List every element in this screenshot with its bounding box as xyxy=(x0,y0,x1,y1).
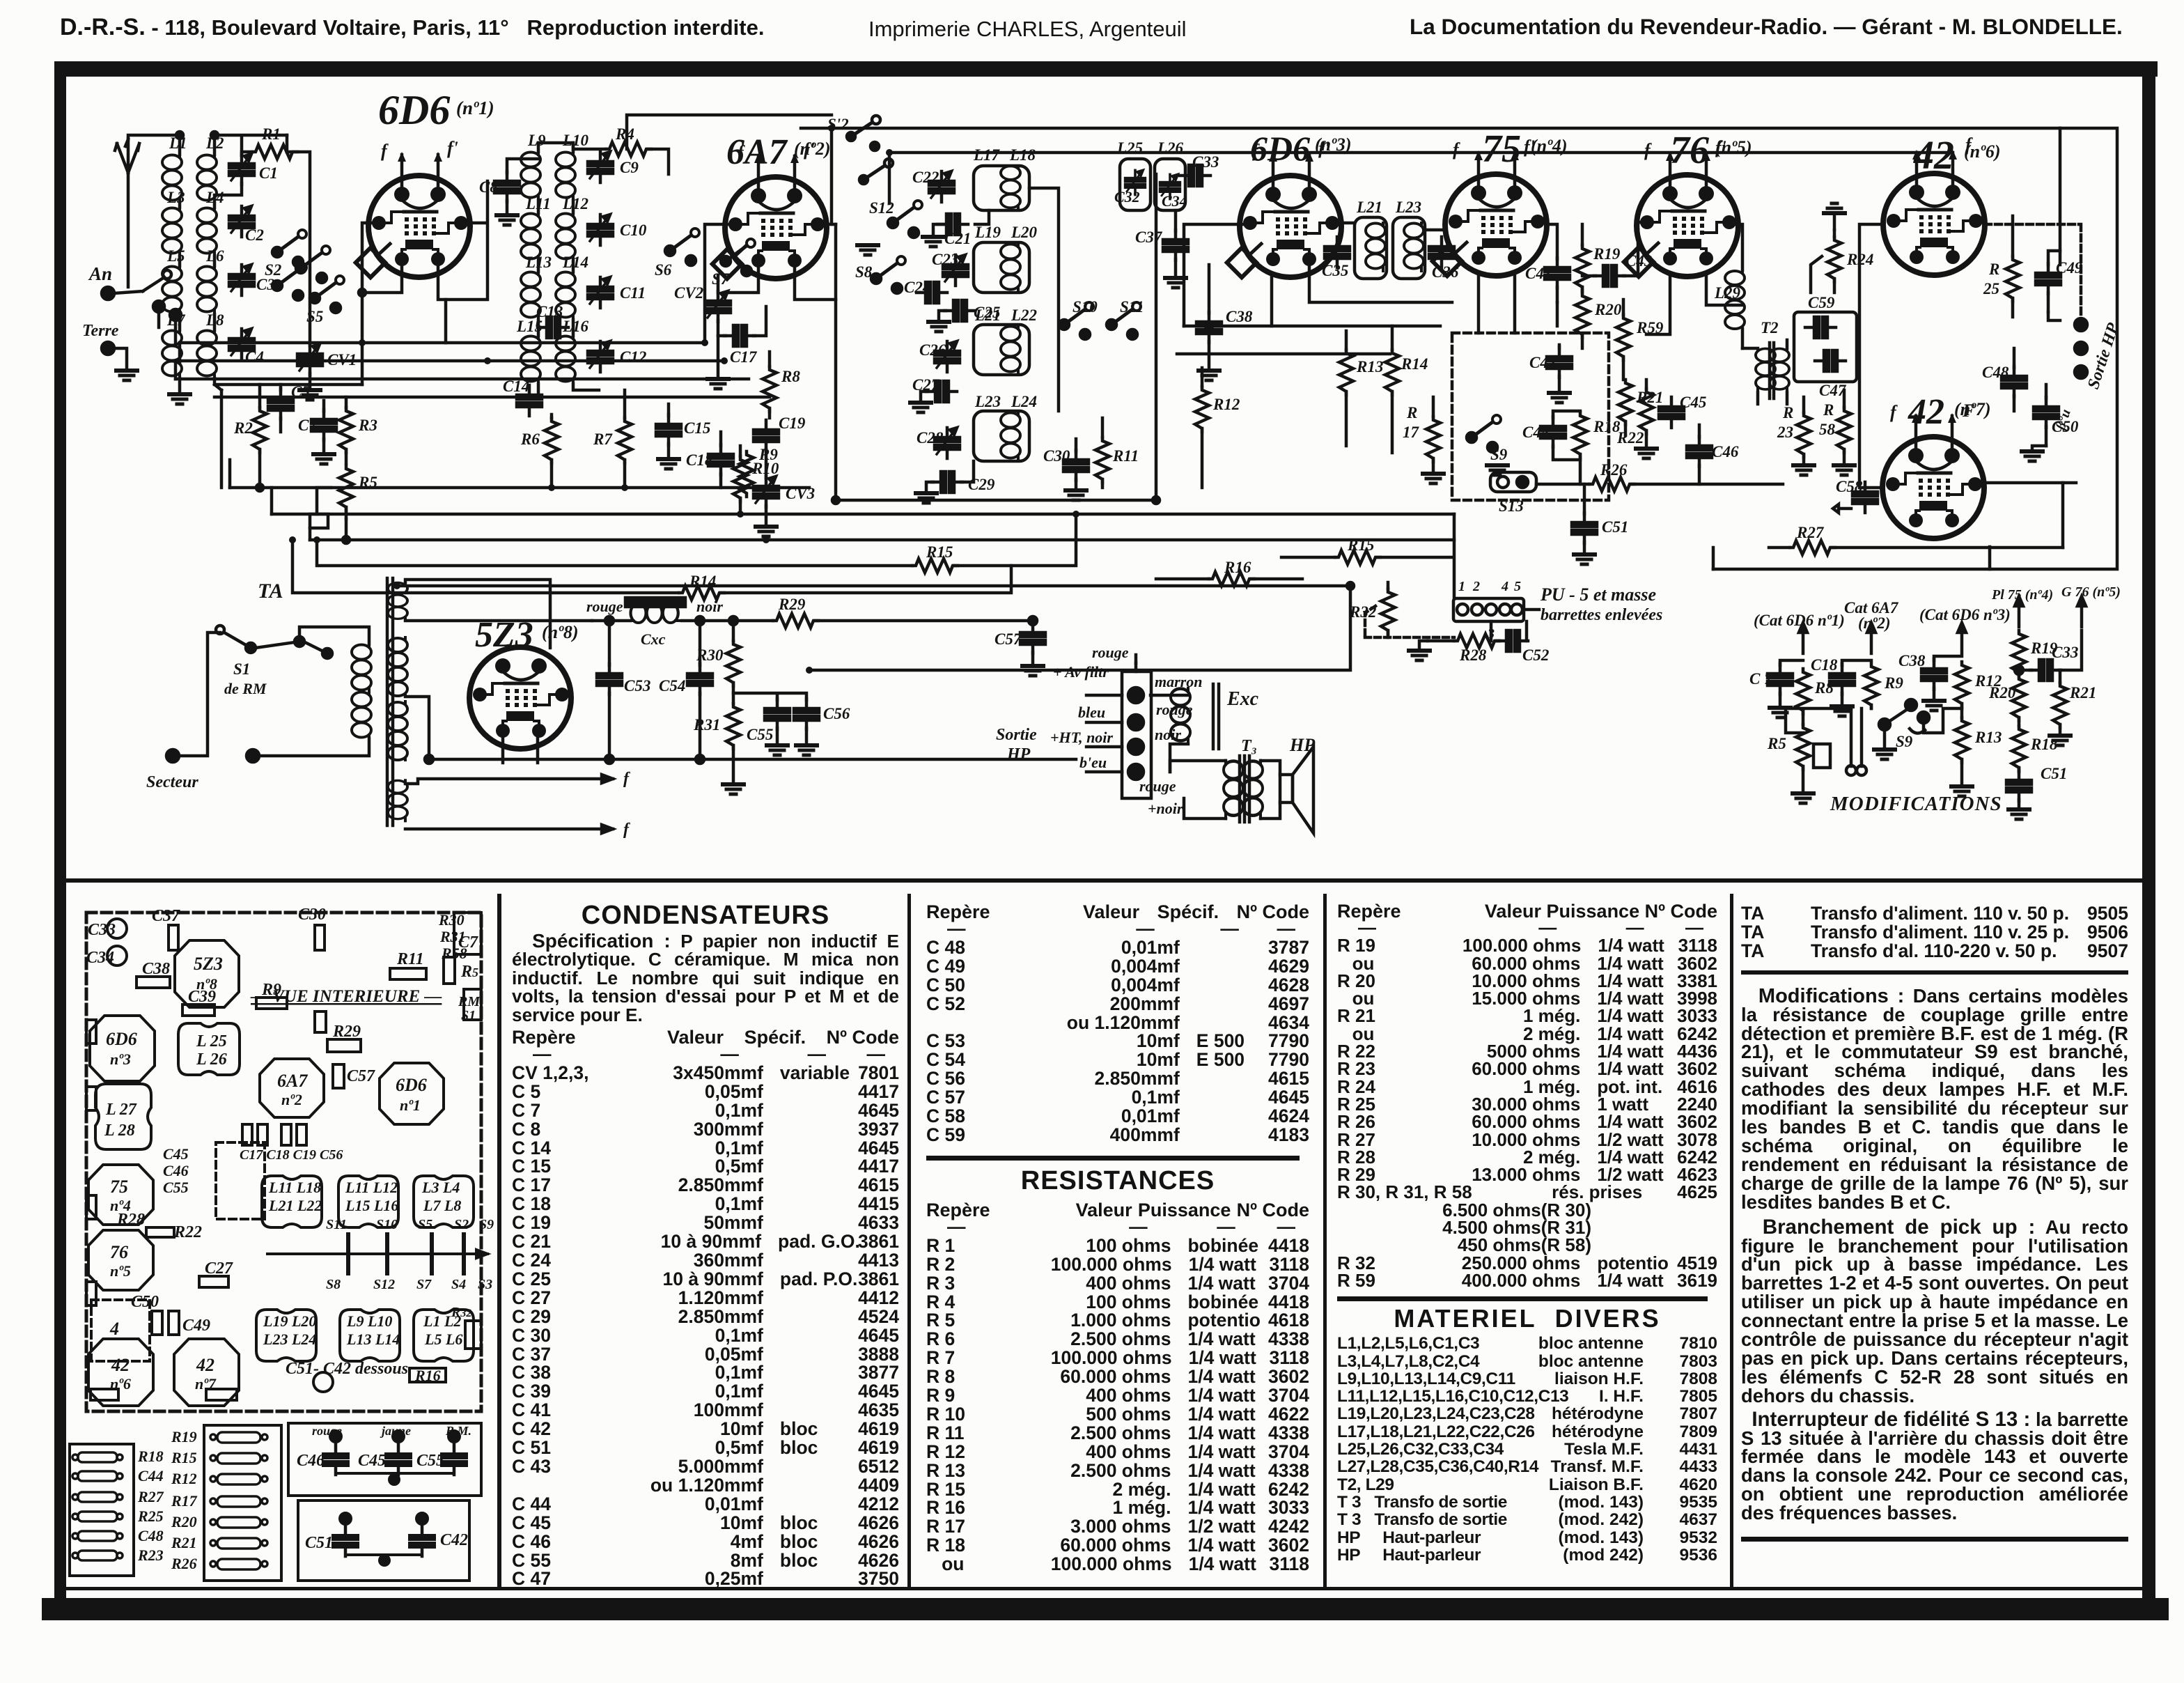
mod capacitor C51b xyxy=(2006,770,2031,801)
svg-text:C22: C22 xyxy=(912,169,939,186)
resistor R3 xyxy=(339,408,353,453)
capacitor C19 xyxy=(754,420,779,451)
mod resistor R5b xyxy=(1796,724,1810,770)
primary selector xyxy=(322,649,332,658)
capacitor C27 xyxy=(926,381,957,402)
ground R28 xyxy=(1409,651,1430,660)
svg-text:R2: R2 xyxy=(233,419,253,437)
svg-text:R21: R21 xyxy=(2069,684,2096,701)
resistor R1 xyxy=(252,145,297,159)
mod resistor R20b xyxy=(2012,676,2026,721)
capacitor C24 xyxy=(916,282,947,303)
variable capacitor CV1 xyxy=(297,344,322,375)
grid cap V3 xyxy=(1227,248,1256,277)
svg-text:CV3: CV3 xyxy=(786,485,815,502)
IF unit L26 xyxy=(1155,159,1185,210)
svg-text:S9: S9 xyxy=(1896,733,1913,750)
svg-text:rouge: rouge xyxy=(1156,701,1193,718)
ground C50 xyxy=(2022,451,2043,461)
svg-text:Pl 75 (nº4): Pl 75 (nº4) xyxy=(1991,587,2053,603)
resistor R19 xyxy=(1575,245,1589,290)
svg-text:L8: L8 xyxy=(205,311,224,329)
resistor R11a xyxy=(1095,437,1109,483)
fil leads f xyxy=(405,779,613,829)
antenna mast xyxy=(115,139,139,173)
svg-text:S12: S12 xyxy=(373,1277,395,1292)
capacitor circle C33 xyxy=(107,919,127,938)
tube socket 5Z3 n.8 xyxy=(175,940,239,1007)
capacitor C52 xyxy=(1497,630,1528,651)
svg-text:nº2: nº2 xyxy=(281,1091,302,1108)
switch S6 xyxy=(665,228,699,265)
capacitor C7 xyxy=(311,410,336,440)
svg-text:f: f xyxy=(623,821,630,839)
svg-text:L12: L12 xyxy=(562,195,588,212)
capacitor C58 xyxy=(1852,482,1878,513)
capacitor C41 xyxy=(1545,258,1570,288)
resistor box A xyxy=(70,1444,134,1576)
svg-text:L16: L16 xyxy=(562,318,589,335)
ground C42 xyxy=(1549,393,1570,403)
svg-text:L7: L7 xyxy=(166,311,186,329)
svg-text:C56: C56 xyxy=(823,705,850,722)
capacitor circle C34 xyxy=(107,946,127,965)
small rect C30 xyxy=(315,925,325,950)
svg-text:C18: C18 xyxy=(1811,656,1838,674)
mod ground S9b xyxy=(1874,750,1895,759)
svg-text:CV2: CV2 xyxy=(674,284,703,302)
resistor R30 xyxy=(726,641,740,686)
svg-text:L1: L1 xyxy=(169,134,187,152)
wire 6D6.3 left region xyxy=(1184,224,1250,326)
svg-text:R29: R29 xyxy=(332,1023,361,1041)
ground R58 xyxy=(1834,465,1855,475)
svg-text:L5: L5 xyxy=(166,247,185,265)
resistor R15b xyxy=(912,559,958,573)
resistor R27 xyxy=(1790,541,1835,554)
mod cathode 6A7 arrow xyxy=(1867,623,1875,653)
capacitor C5 xyxy=(268,389,293,419)
svg-text:75: 75 xyxy=(110,1177,128,1197)
svg-text:C51: C51 xyxy=(2041,765,2067,782)
resistor R4 xyxy=(606,142,651,156)
wire bankB vertical xyxy=(214,135,362,385)
svg-text:42: 42 xyxy=(196,1355,214,1375)
wire y468 xyxy=(1184,325,1440,328)
capacitor C37 xyxy=(1163,230,1188,261)
sortie terminal 3 xyxy=(2075,366,2087,378)
mod ground R13b xyxy=(1951,786,1972,796)
frame right bar xyxy=(2142,67,2155,1598)
output transformer T3 xyxy=(1224,761,1243,819)
svg-text:L20: L20 xyxy=(1011,224,1038,241)
svg-text:C55: C55 xyxy=(416,1452,444,1470)
header imprint left xyxy=(60,14,764,41)
svg-text:R25: R25 xyxy=(137,1507,164,1525)
svg-text:R7: R7 xyxy=(593,431,613,448)
svg-text:R4: R4 xyxy=(615,125,634,143)
resistor R58 xyxy=(1837,408,1851,453)
tube socket 6D6 n.3 xyxy=(90,1016,155,1081)
tube socket 6D6 n.1 xyxy=(380,1063,444,1124)
trimmer C32 xyxy=(1125,170,1146,194)
svg-text:C50: C50 xyxy=(131,1293,159,1311)
coil can L1 L2 L5 L6 xyxy=(414,1310,474,1361)
svg-text:(nº6): (nº6) xyxy=(1964,141,2001,162)
table column separator 1 xyxy=(497,894,501,1588)
svg-text:C34: C34 xyxy=(86,949,114,967)
svg-text:R15: R15 xyxy=(1347,536,1374,554)
svg-text:L22: L22 xyxy=(1011,307,1037,324)
svg-text:S6: S6 xyxy=(655,261,672,279)
AVC wire y851 xyxy=(292,540,1011,593)
svg-text:L23: L23 xyxy=(1395,199,1421,216)
variable capacitor CV2 xyxy=(705,291,731,322)
terre terminal xyxy=(102,342,114,355)
frame left bar xyxy=(54,67,66,1598)
svg-text:L 25: L 25 xyxy=(196,1032,227,1050)
svg-text:R23: R23 xyxy=(137,1546,164,1564)
capacitor C51 xyxy=(1572,513,1597,543)
svg-text:marron: marron xyxy=(1155,673,1202,690)
tube V8 5Z3 (n.8) xyxy=(469,647,571,749)
svg-text:L11 L18: L11 L18 xyxy=(268,1179,321,1196)
resistor R8a xyxy=(763,366,777,412)
resistor R23 xyxy=(1797,412,1811,458)
svg-text:C32: C32 xyxy=(1114,188,1140,205)
capacitor C33 xyxy=(1180,165,1210,186)
IF unit L21b xyxy=(1355,217,1387,279)
cartouches box A xyxy=(72,1452,123,1560)
svg-text:R22: R22 xyxy=(173,1223,202,1241)
grid cap V1 xyxy=(356,248,385,277)
resistor R25 xyxy=(2006,256,2020,302)
svg-text:R24: R24 xyxy=(1846,251,1873,268)
svg-text:L25: L25 xyxy=(1116,139,1143,157)
ground S12 xyxy=(857,245,878,255)
svg-text:C38: C38 xyxy=(1898,652,1926,669)
svg-text:L23 L24: L23 L24 xyxy=(263,1331,316,1348)
svg-text:C17: C17 xyxy=(730,348,758,366)
table column separator 4 xyxy=(1730,894,1733,1588)
svg-text:C 7: C 7 xyxy=(1749,670,1773,688)
cartouches box B xyxy=(210,1432,267,1569)
svg-text:C55: C55 xyxy=(163,1179,189,1196)
secteur terminal b xyxy=(247,750,259,762)
svg-text:nº3: nº3 xyxy=(110,1050,131,1068)
wire junctions xyxy=(211,132,218,139)
svg-text:75: 75 xyxy=(1482,127,1521,171)
svg-text:R20: R20 xyxy=(171,1513,197,1530)
wire antenna top to coils xyxy=(128,135,180,139)
svg-text:S1: S1 xyxy=(233,660,250,678)
svg-text:R5: R5 xyxy=(460,963,478,981)
small rect C39 xyxy=(182,1005,214,1016)
tube V2 6A7 (n.2) xyxy=(725,139,827,279)
svg-text:C19: C19 xyxy=(779,414,806,432)
small rect C7 xyxy=(444,957,455,984)
wire top feed y165 xyxy=(627,115,832,149)
barrette S13 xyxy=(1490,472,1536,492)
ground R17 xyxy=(1423,474,1444,483)
coil L7 xyxy=(162,330,182,378)
switch tick S5 S7 xyxy=(430,1234,434,1273)
wire 42.6 plate to C49 col xyxy=(2048,312,2060,320)
switch S'1 xyxy=(859,176,868,184)
small rect R28 xyxy=(146,1227,174,1237)
svg-text:R28: R28 xyxy=(116,1211,145,1229)
wires 6D6.1 pins xyxy=(362,181,487,343)
small rect C27 xyxy=(199,1276,228,1287)
svg-text:S5: S5 xyxy=(418,1217,432,1232)
grid cap V4 xyxy=(1433,247,1462,276)
tube socket 75 n.4 xyxy=(88,1165,153,1225)
mod ground C18b xyxy=(1832,706,1852,716)
svg-text:S12: S12 xyxy=(869,199,894,217)
resistor R21 xyxy=(1618,380,1632,425)
switch S8 xyxy=(871,256,905,293)
coil unit L17 L18 xyxy=(974,166,1029,210)
svg-text:L3: L3 xyxy=(166,189,185,206)
svg-text:25: 25 xyxy=(1983,280,1999,297)
sortie terminal 2 xyxy=(2075,342,2087,355)
svg-text:L4: L4 xyxy=(205,189,224,206)
schematic/table separator rule xyxy=(64,878,2144,883)
tube V1 6D6 (n.1) xyxy=(368,138,470,277)
capacitor C14 xyxy=(517,385,542,416)
ground R31 xyxy=(723,784,744,794)
svg-text:C37: C37 xyxy=(152,907,180,925)
resistor R59 xyxy=(1616,315,1630,360)
coil can L19 L20 L23 L24 xyxy=(256,1310,316,1361)
grid cap V5 xyxy=(1624,247,1653,277)
svg-text:R13: R13 xyxy=(1356,358,1383,375)
ground C27 xyxy=(910,403,931,412)
svg-text:L18: L18 xyxy=(1009,146,1036,164)
svg-text:C45: C45 xyxy=(163,1145,189,1163)
svg-text:C46: C46 xyxy=(1712,443,1739,460)
svg-text:L9 L10: L9 L10 xyxy=(346,1312,392,1330)
resistor R2 xyxy=(253,408,267,453)
band switch S5 xyxy=(310,276,344,313)
junction dots mid xyxy=(832,497,839,504)
cap C55 sym xyxy=(442,1444,467,1475)
svg-text:R27: R27 xyxy=(137,1488,164,1505)
header imprint middle xyxy=(868,17,1187,42)
svg-text:C17 C18 C19 C56: C17 C18 C19 C56 xyxy=(240,1147,343,1163)
svg-text:L11 L12: L11 L12 xyxy=(345,1179,398,1196)
svg-text:R18: R18 xyxy=(2030,736,2058,753)
switch tick S2 S4 xyxy=(462,1234,466,1273)
svg-text:nº7: nº7 xyxy=(195,1375,217,1393)
edge tabs right xyxy=(454,913,481,954)
svg-text:42: 42 xyxy=(111,1355,130,1375)
svg-text:R14: R14 xyxy=(689,573,716,590)
svg-text:C48: C48 xyxy=(1982,364,2009,381)
tube V4 75 (n.4) xyxy=(1445,137,1547,276)
svg-text:R20: R20 xyxy=(1594,301,1622,318)
capacitor C15 xyxy=(656,414,681,445)
switch S'2 xyxy=(847,132,855,141)
trimmer C9 xyxy=(588,152,613,183)
switch S7 xyxy=(721,239,755,276)
svg-text:HP: HP xyxy=(1006,745,1031,763)
svg-text:f: f xyxy=(381,141,389,161)
grid cap V2 xyxy=(712,249,742,279)
svg-text:6D6: 6D6 xyxy=(396,1075,427,1095)
coil L15 xyxy=(521,336,540,384)
svg-text:Secteur: Secteur xyxy=(146,773,198,791)
svg-text:rouge: rouge xyxy=(312,1424,342,1438)
capacitor C25 xyxy=(944,300,975,321)
ground C29 xyxy=(916,493,937,503)
svg-text:4: 4 xyxy=(109,1319,119,1339)
svg-text:f: f xyxy=(623,770,630,788)
svg-text:C43: C43 xyxy=(1625,252,1652,270)
bus wire 2 xyxy=(175,359,724,363)
coil unit L19 L20 xyxy=(974,242,1029,293)
resistor R9a xyxy=(740,451,754,497)
capacitor C18 xyxy=(708,444,733,475)
svg-text:R9: R9 xyxy=(261,981,281,999)
svg-text:R30: R30 xyxy=(696,646,724,664)
wire 75 grid from C41 xyxy=(1556,302,1559,326)
svg-text:R19: R19 xyxy=(171,1428,197,1445)
svg-text:C35: C35 xyxy=(1322,262,1348,279)
svg-text:C29: C29 xyxy=(968,476,995,493)
trimmer C26 xyxy=(935,341,960,372)
bank2 verticals xyxy=(538,143,599,394)
IF unit L25 xyxy=(1120,159,1150,210)
svg-text:C7: C7 xyxy=(298,417,318,434)
mod cathode 6D6.3 arrow xyxy=(1958,623,1966,653)
sortie terminal 1 xyxy=(2075,318,2087,331)
svg-text:C28: C28 xyxy=(916,429,944,447)
wire HT centre tap xyxy=(405,697,429,759)
svg-text:C52: C52 xyxy=(1522,646,1549,664)
svg-text:CV1: CV1 xyxy=(327,351,357,369)
svg-text:(nº2): (nº2) xyxy=(794,139,831,159)
tube socket 6A7 n.2 xyxy=(260,1059,324,1117)
svg-text:R10: R10 xyxy=(751,460,779,477)
mod resistor R9b xyxy=(1864,663,1878,708)
mod cathode jacks xyxy=(1851,708,1862,766)
svg-text:R31: R31 xyxy=(693,716,720,734)
top bus wire A xyxy=(801,127,2060,130)
long wire y738 xyxy=(272,513,1454,516)
ground R22 xyxy=(1636,449,1657,458)
ground C7 xyxy=(313,454,334,464)
mod capacitor C38b xyxy=(1921,659,1947,690)
ground CV2 xyxy=(708,379,728,389)
mod resistor R18b xyxy=(2012,726,2026,771)
cap C51 sym xyxy=(333,1526,358,1556)
svg-text:S10: S10 xyxy=(1072,298,1098,316)
svg-text:C41: C41 xyxy=(1525,265,1552,282)
mod resistor R13b xyxy=(1955,718,1969,763)
mod resistor R19b xyxy=(2012,630,2026,676)
svg-text:C10: C10 xyxy=(620,222,647,239)
svg-text:4: 4 xyxy=(1501,579,1508,594)
svg-text:R21: R21 xyxy=(1636,389,1663,406)
mod switch S9b xyxy=(1879,719,1890,730)
svg-text:+ Av filtr: + Av filtr xyxy=(1053,663,1109,681)
mod capacitor C18b xyxy=(1830,664,1855,695)
svg-text:L2: L2 xyxy=(205,134,224,152)
coil can L25 L26 xyxy=(178,1023,240,1075)
wire PU right drop xyxy=(1524,608,1539,612)
trimmer C2 xyxy=(229,206,254,237)
wire 42.6 right xyxy=(1985,224,2081,318)
svg-text:L13: L13 xyxy=(525,254,552,271)
svg-text:C46: C46 xyxy=(297,1452,325,1470)
trimmer C28 xyxy=(935,428,960,458)
mod capacitor C33b xyxy=(2030,660,2061,681)
ground CV3 xyxy=(756,527,777,536)
svg-text:L 27: L 27 xyxy=(105,1101,137,1119)
svg-text:An: An xyxy=(88,263,112,284)
bus wire 4 xyxy=(214,396,770,399)
tube socket 42 n.6 xyxy=(88,1339,153,1406)
svg-text:C13: C13 xyxy=(536,303,563,320)
svg-text:noir: noir xyxy=(696,598,723,615)
coil L11 xyxy=(521,213,540,261)
svg-text:C4: C4 xyxy=(245,348,264,366)
svg-text:C46: C46 xyxy=(163,1162,189,1179)
output loop vertical xyxy=(1713,547,1990,569)
svg-text:C26: C26 xyxy=(919,341,946,359)
svg-text:S7: S7 xyxy=(712,270,730,288)
svg-text:Terre: Terre xyxy=(82,322,119,340)
ground C57 xyxy=(1022,666,1043,676)
svg-text:C9: C9 xyxy=(620,159,639,176)
coil L9 xyxy=(521,152,540,200)
svg-text:L19 L20: L19 L20 xyxy=(263,1312,316,1330)
PU connector xyxy=(1453,598,1524,621)
svg-text:(nº8): (nº8) xyxy=(542,622,579,642)
svg-text:C57: C57 xyxy=(347,1067,375,1085)
svg-text:C24: C24 xyxy=(904,279,930,296)
svg-text:6A7: 6A7 xyxy=(726,132,788,172)
svg-text:R8: R8 xyxy=(781,368,800,385)
svg-text:R12: R12 xyxy=(171,1470,197,1487)
svg-text:R18: R18 xyxy=(137,1448,164,1465)
svg-text:C47: C47 xyxy=(1819,382,1847,399)
wire drops xyxy=(214,385,346,540)
small rect R6 xyxy=(315,1011,326,1032)
svg-text:C44: C44 xyxy=(138,1467,164,1484)
svg-text:R17: R17 xyxy=(171,1492,198,1510)
wire mains left xyxy=(181,633,220,756)
tap C55 xyxy=(733,693,806,700)
svg-text:C33: C33 xyxy=(2052,644,2078,661)
resistor R10a xyxy=(733,456,747,502)
long wire y841 xyxy=(397,584,1350,588)
coil L8 xyxy=(197,330,217,378)
resistor R13a xyxy=(1339,350,1353,395)
svg-text:76: 76 xyxy=(1670,129,1709,172)
svg-text:S9: S9 xyxy=(479,1217,494,1232)
capacitor C49 xyxy=(2036,263,2061,294)
svg-text:C2: C2 xyxy=(245,226,264,244)
resistor R20 xyxy=(1575,293,1589,338)
svg-text:R18: R18 xyxy=(1593,418,1621,435)
svg-text:6A7: 6A7 xyxy=(277,1071,308,1091)
svg-text:+HT, noir: +HT, noir xyxy=(1050,729,1113,746)
small rect C37 xyxy=(169,925,178,950)
svg-text:L21: L21 xyxy=(974,307,1001,324)
svg-text:jaune: jaune xyxy=(380,1424,411,1438)
